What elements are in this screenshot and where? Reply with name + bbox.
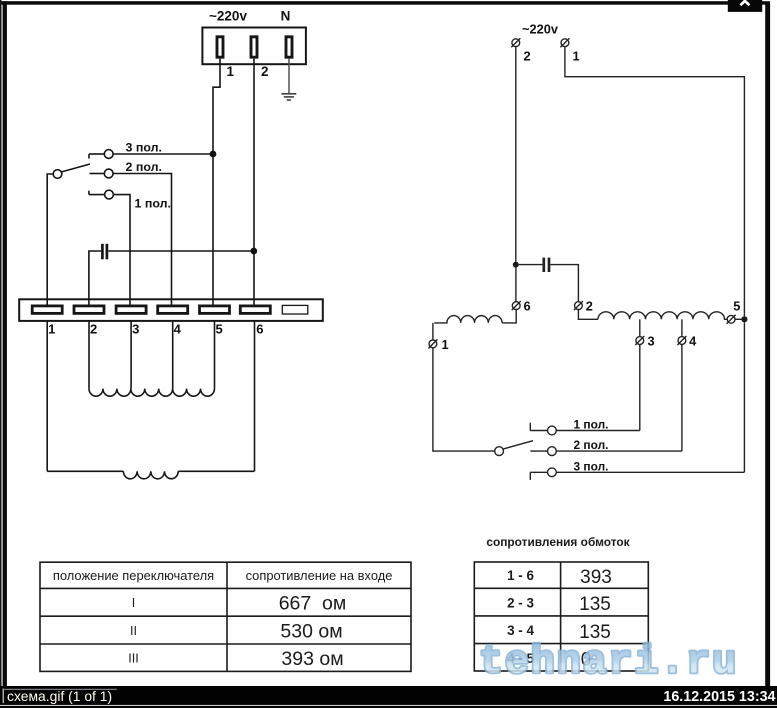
svg-text:1: 1 [227,64,235,79]
svg-text:II: II [130,624,137,638]
svg-text:3 - 4: 3 - 4 [507,623,534,638]
svg-text:4: 4 [689,334,697,349]
wire terminal 3 down [130,321,132,389]
svg-text:16.12.2015 13:34: 16.12.2015 13:34 [663,689,775,705]
switch contact 3 circle [548,468,557,477]
window title bar [2,1,771,4]
wire phi2 down to winding 2-5 [578,310,598,320]
wire contact 1 to terminal 3 [113,195,130,305]
wire junction to capacitor [519,264,543,266]
status bar bottom light line [0,705,777,706]
left table column divider [226,562,228,671]
svg-text:сопротивление на входе: сопротивление на входе [246,568,393,583]
power connector block X1 [202,28,306,65]
wire right rail down to 3 пол. row [743,322,745,472]
switch contact 2 circle [548,447,557,456]
wire stub to contact 2 [90,173,105,175]
winding 2-5 (speed taps) [598,312,727,320]
winding L2 (terminals 2-5 sections) [89,389,214,397]
junction dot node 6 [250,248,257,255]
wire terminal 6 down [254,321,256,471]
wire capacitor to node 2 [550,265,578,302]
svg-text:1: 1 [48,322,55,337]
wire switch common to terminal 1 [47,174,53,305]
terminal 4 [158,306,188,314]
close button box [728,0,762,12]
wire phi3 down to 1 пол. row [639,344,641,430]
motor terminal 5 (circle with slash) [727,315,736,324]
svg-text:393: 393 [580,567,612,588]
status bar background [0,686,777,708]
TABLES [40,535,648,671]
svg-text:3 пол.: 3 пол. [126,141,162,155]
wire junction to phi6 [515,265,517,302]
wire N to ground [288,59,290,94]
svg-text:2: 2 [90,322,97,337]
motor terminal 6 (circle with slash) [512,301,521,310]
wire terminal 2 down [88,321,90,389]
node 3 пол. stub hook [529,472,531,480]
status bar bevel horizontal [4,689,117,690]
svg-text:3: 3 [647,334,654,349]
svg-text:2 - 3: 2 - 3 [507,596,534,611]
close button X glyph (clipped at top) [740,1,749,5]
wire supply2 down to junction [515,47,517,262]
terminal 3 [116,306,146,314]
motor terminal 4 (circle with slash) [677,336,686,345]
LEFT CIRCUIT [19,8,323,479]
junction dot node 3 пол. [210,151,217,158]
fuse F1 [217,37,223,57]
winding 1-6 (main) [434,316,502,323]
left table row lines [40,588,411,644]
svg-text:3 пол.: 3 пол. [574,459,609,473]
right table row lines [474,588,648,643]
supply terminal 2 (circle with slash) [511,38,520,47]
switch SA2 common contact [495,447,504,456]
wire phi6 down to winding [502,310,516,323]
svg-text:сопротивления обмоток: сопротивления обмоток [486,535,629,549]
svg-text:2 пол.: 2 пол. [574,438,609,452]
terminal 2 [74,306,104,314]
window right border [765,4,770,686]
wire fuse2 to terminal 6 [253,59,255,305]
spare terminal [282,305,308,314]
right table column divider [560,562,562,671]
wire tap 3 [639,319,641,336]
wire phi4 down to 2 пол. row [681,344,683,451]
wire stub to contact 1 [530,430,547,432]
svg-text:1: 1 [572,49,579,64]
svg-text:2: 2 [523,49,530,64]
svg-text:~220v: ~220v [209,8,247,23]
WATERMARK [479,641,738,686]
svg-text:6: 6 [523,299,530,314]
switch SA1 common contact [53,170,62,179]
svg-text:1: 1 [441,337,448,352]
svg-text:5: 5 [733,299,740,314]
svg-text:393 ом: 393 ом [281,648,343,670]
svg-text:3: 3 [132,322,139,337]
winding L1 (main 1-6) [123,471,178,479]
svg-text:III: III [128,652,139,666]
svg-text:схема.gif (1 of 1): схема.gif (1 of 1) [7,688,112,704]
capacitor C2 plates [544,258,549,272]
window left border [3,1,7,686]
svg-text:1 пол.: 1 пол. [574,418,609,432]
svg-text:4: 4 [174,322,182,337]
bottom wire right [178,470,254,472]
terminal 6 [240,306,270,314]
fuse F2 [251,37,257,57]
svg-text:667 ом: 667 ом [279,593,347,615]
switch contact 1 circle [548,426,557,435]
svg-text:I: I [132,596,136,610]
svg-text:1 пол.: 1 пол. [135,196,171,210]
window outer hairline left edge [0,0,2,686]
wire phi1 down to switch common [433,348,495,451]
svg-text:6: 6 [256,322,263,337]
wire stub to contact 3 [530,471,547,473]
wire stub to contact 2 [530,450,547,452]
terminal 1 [32,306,62,314]
svg-text:135: 135 [579,594,611,615]
switch contact 3 circle [104,150,113,159]
right table frame [474,562,648,671]
wire stub to contact 1 [89,194,105,196]
wire winding to phi1 [432,323,434,340]
wire contact 3 row [556,471,744,473]
fuse F3 [286,37,292,57]
svg-text:1 - 6: 1 - 6 [507,568,534,583]
status bar bevel vertical [3,689,4,704]
wire terminal 1 down [46,321,48,471]
wire fuse1 to terminal 5 [213,59,220,305]
ground [281,94,296,100]
wire terminal 5 down [214,321,216,389]
terminal block X2 [19,299,323,321]
motor terminal 1 (circle with slash) [428,339,437,348]
wire supply1 right side down [565,47,745,317]
svg-text:5: 5 [215,322,222,337]
svg-text:2: 2 [261,64,269,79]
wire stub to contact 3 [89,153,104,155]
node 1 пол. stub hook [88,191,90,195]
svg-text:530 ом: 530 ом [280,620,342,642]
motor terminal 3 (circle with slash) [635,336,644,345]
svg-text:2: 2 [586,299,593,314]
svg-text:tehnari.ru: tehnari.ru [479,641,738,686]
wire capacitor to node 6 [108,250,254,252]
STATUSBAR [0,686,777,708]
switch contact 2 circle [104,169,113,178]
node 3 пол. stub hook [88,154,90,159]
wire tap 4 [681,319,683,336]
junction dot right rail [741,316,747,322]
left table frame [40,562,411,671]
wire terminal 2 up to capacitor [89,251,101,305]
motor terminal 2 (circle with slash) [574,301,583,310]
node 1 пол. stub hook [529,423,531,431]
wire phi5 to right rail [735,318,742,320]
supply terminal 1 (circle with slash) [560,38,569,47]
wire contact 3 to node [113,153,213,155]
svg-text:N: N [281,8,291,23]
svg-text:~220v: ~220v [522,22,559,37]
capacitor C1 plates [102,244,107,259]
wire contact 2 to terminal 4 [113,174,171,306]
bottom wire left [47,470,123,472]
switch SA2 arm [503,441,533,449]
svg-text:положение переключателя: положение переключателя [53,568,214,583]
svg-text:2 пол.: 2 пол. [126,160,162,174]
wire terminal 4 down [172,321,174,389]
switch contact 1 circle [105,190,114,199]
terminal 5 [200,306,230,314]
RIGHT CIRCUIT [428,22,747,480]
switch SA1 arm [62,164,90,172]
wire contact 2 row [556,450,682,452]
junction dot capacitor node [513,262,519,268]
wire contact 1 row [556,430,640,432]
